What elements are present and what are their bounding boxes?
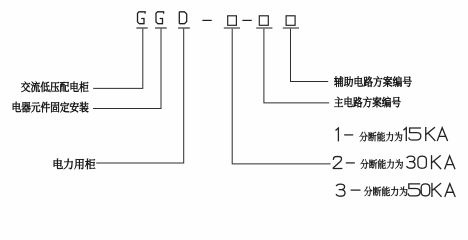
wire square 1 to row 2 [232,29,330,164]
row1 value A [437,128,447,141]
label zhudianlu [334,97,400,108]
square box 1 (breaking capacity code) [228,16,237,25]
letter G2 [156,12,164,24]
square box 3 (auxiliary circuit scheme) [286,16,295,25]
row1 value 5 [409,128,421,140]
row2 value K [432,156,441,169]
dash after D [202,19,211,21]
tick under square 1 [224,27,240,29]
wire square 3 to label fuzhu [291,29,329,82]
wire G1 to label jiaoliu [93,29,143,89]
tick under D [178,27,190,29]
tick under G1 [136,27,147,29]
row3 dash [351,189,360,191]
row3 cn [364,186,408,196]
wire D to label dianli [96,29,184,163]
row2 digit 2 prefix [333,157,341,169]
tick under square 2 [256,27,272,29]
letter G1 [138,12,146,24]
row1 dash [345,134,353,136]
row3 value 0 [421,184,430,196]
label dianli [54,159,96,170]
row2 dash [346,162,354,164]
tick under square 3 [283,27,299,29]
wire G2 to label dianqi [93,29,161,109]
row3 value A [445,184,455,197]
row2 value 3 [407,156,415,168]
row2 cn [360,159,403,169]
row2 value 0 [418,156,427,168]
tick under G2 [155,27,167,29]
label jiaoliu [21,81,88,92]
square box 2 (main circuit scheme) [259,16,268,25]
row3 value K [432,184,441,197]
row2 value A [445,156,455,169]
row1 value K [426,128,435,141]
row1 value 1 [404,128,406,141]
label dianqi [13,102,89,113]
wire square 2 to label zhudianlu [264,29,329,103]
letter D [179,12,186,24]
label fuzhu [334,76,411,87]
row3 digit 3 prefix [336,184,345,196]
row3 value 5 [408,184,420,196]
row1 cn [359,132,402,142]
dash between square 1 and square 2 [242,19,251,21]
row1 digit 1 prefix [336,128,338,141]
